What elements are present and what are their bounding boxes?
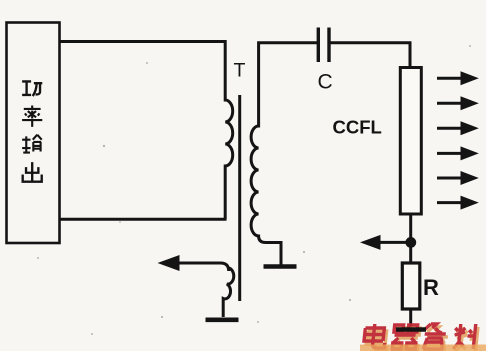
capacitor C plate left <box>317 28 320 63</box>
junction node <box>405 237 416 248</box>
transformer secondary winding <box>251 43 317 265</box>
feedback winding <box>223 268 234 317</box>
light arrow 5 <box>437 171 479 185</box>
light arrow 2 <box>437 96 479 110</box>
capacitor C plate right <box>327 28 330 63</box>
label 出 (power block text char 4) <box>23 162 42 182</box>
arrow: junction to dimming feedback (left) <box>360 235 408 250</box>
CCFL tube <box>400 68 421 215</box>
wire: junction to resistor R <box>409 245 412 263</box>
ground (secondary) <box>264 264 297 269</box>
wire: CCFL bottom to junction <box>409 214 412 245</box>
svg-text:T: T <box>234 60 246 82</box>
transformer primary winding <box>225 40 233 219</box>
ground (feedback winding) <box>206 317 239 322</box>
ground (resistor) <box>396 327 426 332</box>
scan speckles <box>37 45 471 335</box>
resistor R <box>402 263 420 309</box>
svg-text:CCFL: CCFL <box>333 117 382 138</box>
watermark 电器资料 (red) <box>363 324 478 351</box>
watermark base band (orange) <box>360 345 486 351</box>
transformer core <box>238 95 241 301</box>
wire: resistor to ground <box>409 309 412 328</box>
wire: block top output to transformer primary <box>59 40 225 43</box>
wire: block bottom to transformer primary bottom <box>59 218 227 221</box>
svg-text:R: R <box>423 275 439 300</box>
light arrow 6 <box>437 196 479 210</box>
arrow: feedback winding output (left) <box>158 255 229 271</box>
label 输 (power block text char 3) <box>22 135 42 153</box>
label 率 (power block text char 2) <box>22 106 42 127</box>
label 功 (power block text char 1) <box>22 81 42 96</box>
wire: capacitor to CCFL tube top <box>331 43 411 67</box>
power output block <box>7 23 60 244</box>
light arrow 3 <box>437 121 479 135</box>
svg-text:C: C <box>318 71 333 94</box>
light arrow 4 <box>437 146 479 160</box>
light arrow 1 <box>437 71 479 85</box>
